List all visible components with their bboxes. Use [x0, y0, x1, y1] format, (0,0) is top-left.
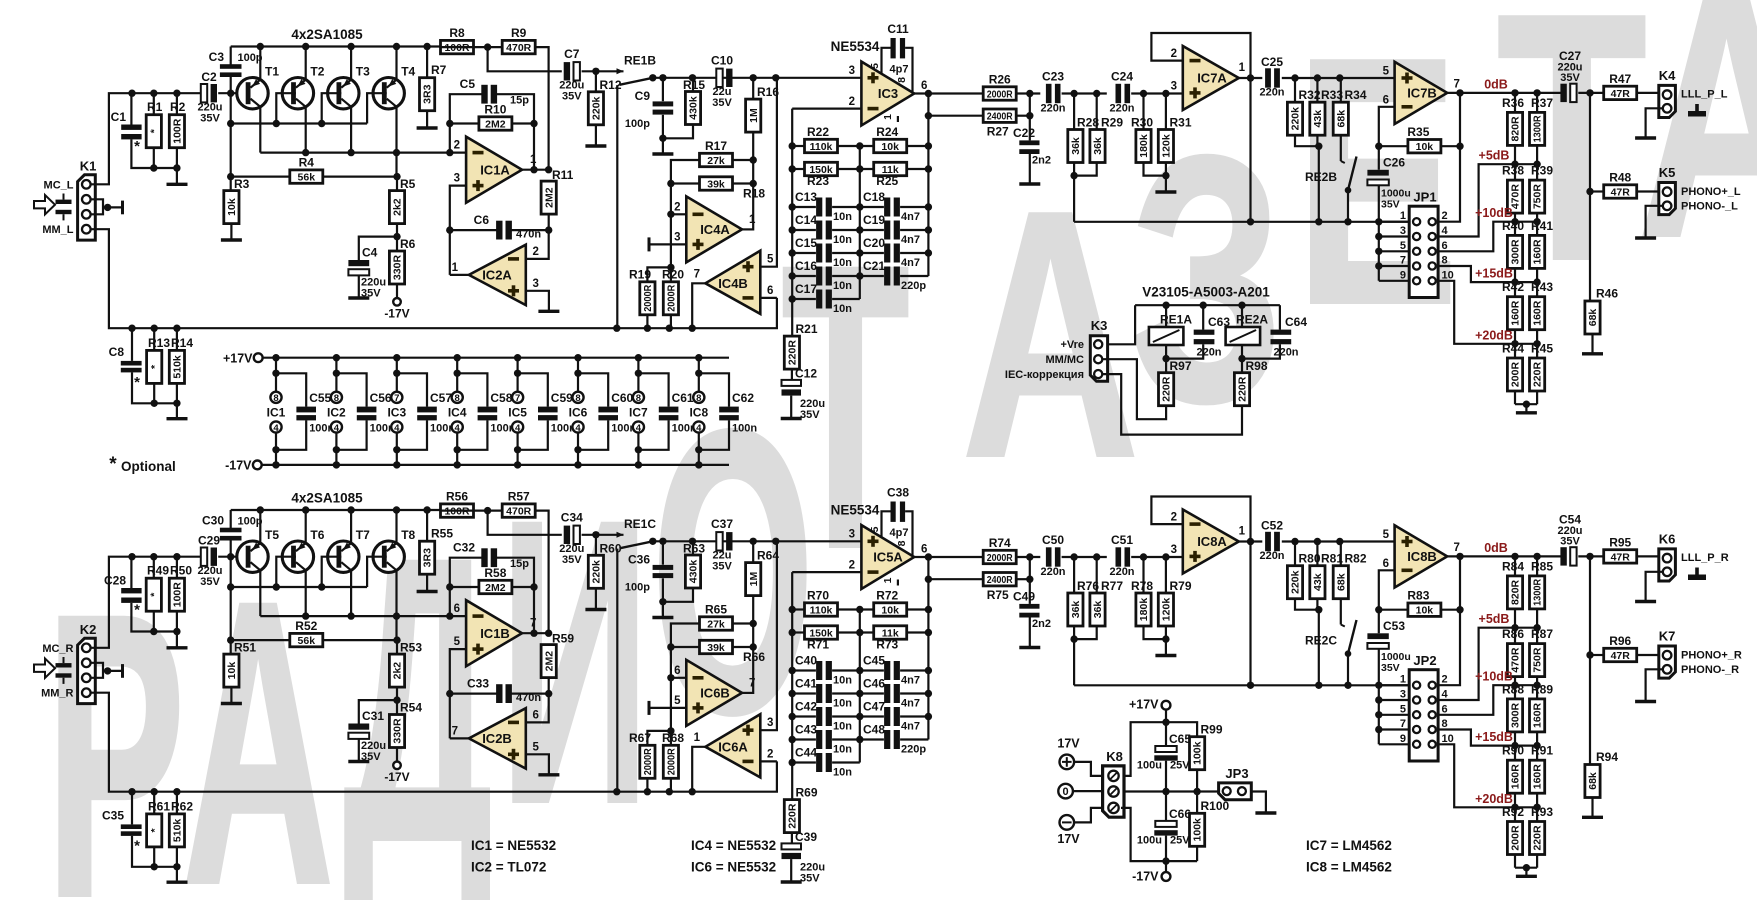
- resistor R6: [389, 237, 415, 284]
- svg-text:100k: 100k: [1192, 741, 1204, 765]
- svg-text:10k: 10k: [881, 604, 899, 616]
- svg-text:C45: C45: [863, 654, 885, 668]
- wire: [882, 511, 891, 537]
- capacitor C57: [397, 373, 456, 450]
- svg-text:C50: C50: [1042, 533, 1064, 547]
- svg-text:220p: 220p: [901, 280, 926, 292]
- svg-text:+15dB: +15dB: [1475, 267, 1513, 281]
- resistor R28: [1068, 116, 1100, 163]
- resistor R15: [683, 78, 705, 125]
- svg-text:25V: 25V: [1170, 835, 1190, 847]
- wire: [230, 510, 232, 528]
- resistor R65: [700, 603, 733, 631]
- svg-text:C23: C23: [1042, 70, 1064, 84]
- op-amp IC1A: [466, 137, 522, 203]
- svg-text:R12: R12: [600, 78, 622, 92]
- wire: [359, 237, 397, 260]
- wire: [395, 47, 397, 80]
- svg-text:*: *: [134, 138, 140, 155]
- capacitor C21: [884, 267, 900, 286]
- svg-text:8: 8: [1442, 255, 1448, 267]
- svg-text:R69: R69: [796, 786, 818, 800]
- wire: [792, 669, 816, 671]
- svg-text:35V: 35V: [1381, 199, 1400, 211]
- resistor R66: [700, 640, 766, 664]
- wire: [1438, 93, 1460, 222]
- wire: [396, 687, 398, 714]
- svg-text:430k: 430k: [688, 96, 700, 120]
- ground: [1635, 136, 1656, 139]
- svg-text:V23105-A5003-A201: V23105-A5003-A201: [1142, 285, 1270, 300]
- svg-text:3: 3: [1171, 81, 1177, 93]
- svg-text:7: 7: [1400, 255, 1406, 267]
- resistor R8: [441, 26, 474, 54]
- wire: [1591, 334, 1593, 354]
- svg-text:C5: C5: [460, 77, 476, 91]
- svg-text:1: 1: [530, 154, 537, 166]
- capacitor C64: [1271, 315, 1308, 359]
- resistor R27: [983, 109, 1016, 139]
- svg-text:35V: 35V: [562, 91, 582, 103]
- capacitor C12: [782, 367, 826, 422]
- wire: [1379, 609, 1408, 611]
- capacitor C42: [816, 707, 832, 726]
- svg-text:56k: 56k: [298, 635, 316, 647]
- svg-text:IC5A: IC5A: [873, 550, 903, 565]
- wire: [131, 328, 133, 361]
- resistor R85: [1530, 559, 1554, 609]
- svg-text:K5: K5: [1659, 165, 1676, 180]
- op-amp IC7B: [1395, 62, 1448, 124]
- wire: [860, 715, 884, 717]
- relay contact RE2B: [1305, 157, 1357, 222]
- ground: [348, 760, 369, 763]
- wire: [914, 92, 984, 94]
- svg-text:8: 8: [696, 393, 701, 404]
- capacitor C51: [1116, 547, 1131, 566]
- wire: [153, 557, 155, 579]
- resistor R48: [1604, 171, 1637, 199]
- transistor T1: [237, 65, 280, 109]
- svg-text:IC3: IC3: [387, 406, 406, 420]
- ground: [781, 417, 802, 420]
- svg-text:R44: R44: [1502, 342, 1524, 356]
- svg-text:2M2: 2M2: [543, 187, 555, 208]
- svg-text:100p: 100p: [237, 52, 262, 64]
- op-amp IC2A labels: [452, 246, 539, 296]
- wire: [526, 230, 549, 259]
- svg-text:C14: C14: [795, 213, 817, 227]
- wire: [488, 47, 562, 71]
- svg-text:10: 10: [1442, 269, 1454, 281]
- svg-text:C58: C58: [490, 391, 512, 405]
- svg-text:K6: K6: [1659, 532, 1676, 547]
- chassis symbol: [1695, 104, 1699, 111]
- wire: [1102, 374, 1242, 435]
- svg-text:2: 2: [1171, 512, 1177, 524]
- svg-text:220R: 220R: [1532, 362, 1544, 388]
- svg-text:IC6 = NE5532: IC6 = NE5532: [691, 860, 776, 875]
- resistor R91: [1530, 744, 1554, 794]
- svg-text:C9: C9: [635, 89, 651, 103]
- resistor R94: [1585, 750, 1618, 798]
- wire: [792, 107, 861, 109]
- svg-text:2000R: 2000R: [642, 284, 654, 311]
- svg-text:100u: 100u: [1137, 835, 1162, 847]
- svg-text:+5dB: +5dB: [1479, 149, 1510, 163]
- resistor R89: [1530, 682, 1554, 732]
- svg-text:R3: R3: [234, 177, 250, 191]
- svg-text:2n2: 2n2: [1032, 618, 1051, 630]
- capacitor C47: [884, 707, 900, 726]
- wire: [1514, 807, 1516, 821]
- svg-text:MM_R: MM_R: [41, 688, 73, 700]
- resistor R30: [1131, 116, 1153, 163]
- wire: [91, 93, 132, 184]
- capacitor C2: [201, 84, 217, 102]
- svg-text:35V: 35V: [200, 576, 220, 588]
- wire: [1121, 808, 1197, 861]
- svg-text:1: 1: [1400, 210, 1406, 222]
- svg-text:R7: R7: [431, 63, 447, 77]
- svg-text:35V: 35V: [200, 113, 220, 125]
- capacitor C65: [1137, 732, 1191, 772]
- ground: [417, 590, 438, 593]
- resistor R55: [420, 527, 454, 575]
- wire: [790, 396, 792, 419]
- svg-text:9: 9: [1400, 269, 1406, 281]
- svg-text:15p: 15p: [510, 95, 529, 107]
- svg-text:17V: 17V: [1057, 832, 1080, 846]
- svg-text:4: 4: [1442, 689, 1449, 701]
- resistor R43: [1530, 280, 1554, 330]
- resistor R47: [1604, 72, 1637, 100]
- op-amp IC8A: [1183, 510, 1239, 574]
- svg-text:R82: R82: [1345, 552, 1367, 566]
- wire: [536, 511, 549, 634]
- wire: [1378, 649, 1380, 745]
- svg-text:1: 1: [1239, 62, 1246, 74]
- wire: [395, 107, 397, 153]
- wire: [752, 541, 754, 562]
- svg-text:6: 6: [1442, 240, 1448, 252]
- wire: [860, 229, 884, 231]
- ground: [221, 702, 242, 705]
- svg-text:7: 7: [749, 678, 755, 690]
- svg-text:10n: 10n: [833, 257, 852, 269]
- svg-text:10n: 10n: [833, 675, 852, 687]
- svg-text:C32: C32: [453, 541, 475, 555]
- svg-text:IC4: IC4: [448, 406, 467, 420]
- svg-text:RE1B: RE1B: [624, 54, 656, 68]
- wire: [426, 47, 428, 78]
- svg-text:110k: 110k: [810, 141, 833, 153]
- ground: [167, 183, 188, 186]
- resistor R52: [290, 619, 323, 647]
- svg-text:7: 7: [694, 269, 700, 281]
- svg-text:C1: C1: [111, 110, 127, 124]
- resistor R39: [1530, 164, 1554, 214]
- wire: [358, 275, 360, 298]
- wire: [1074, 221, 1409, 223]
- svg-text:100k: 100k: [1192, 818, 1204, 842]
- capacitor C49: [1013, 590, 1051, 631]
- wire: [153, 328, 155, 350]
- resistor R73: [874, 626, 907, 652]
- svg-text:220R: 220R: [787, 803, 799, 829]
- wire: [396, 748, 398, 761]
- capacitor C9: [653, 101, 674, 114]
- svg-text:*: *: [134, 374, 140, 391]
- svg-text:4: 4: [1442, 225, 1449, 237]
- svg-text:1: 1: [452, 262, 459, 274]
- svg-text:1M: 1M: [748, 108, 760, 123]
- svg-text:5: 5: [674, 695, 681, 707]
- wire: [450, 274, 469, 276]
- wire: [1074, 762, 1103, 776]
- svg-text:C26: C26: [1383, 156, 1405, 170]
- svg-text:510k: 510k: [172, 819, 184, 843]
- wire: [441, 510, 502, 512]
- svg-text:4p7: 4p7: [890, 527, 909, 539]
- capacitor C13: [816, 198, 832, 217]
- wire: [1514, 685, 1516, 699]
- svg-text:K8: K8: [1106, 749, 1123, 764]
- svg-text:8: 8: [636, 393, 641, 404]
- capacitor C61: [638, 373, 697, 450]
- svg-text:2400R: 2400R: [987, 574, 1013, 586]
- capacitor C16: [816, 267, 832, 286]
- wire: [860, 692, 884, 694]
- power pins IC6: [569, 354, 588, 469]
- svg-text:220n: 220n: [1109, 103, 1134, 115]
- resistor R40: [1502, 219, 1524, 269]
- capacitor C55: [276, 373, 335, 450]
- wire: [1165, 305, 1167, 327]
- wire: [395, 510, 397, 543]
- wire: [153, 792, 155, 814]
- op-amp IC6A: [705, 714, 760, 777]
- svg-text:10k: 10k: [226, 662, 238, 680]
- svg-text:10n: 10n: [833, 211, 852, 223]
- svg-text:C18: C18: [863, 190, 885, 204]
- wire: [522, 169, 549, 171]
- op-amp IC7B labels: [1383, 66, 1460, 109]
- wire: [450, 649, 466, 738]
- svg-text:C7: C7: [564, 47, 580, 61]
- svg-text:IC3: IC3: [878, 86, 898, 101]
- svg-text:4x2SA1085: 4x2SA1085: [291, 27, 363, 42]
- capacitor C59: [518, 373, 577, 450]
- connector K3: [1090, 318, 1107, 381]
- capacitor C23: [1046, 84, 1061, 103]
- wire: [792, 715, 816, 717]
- svg-text:750R: 750R: [1532, 184, 1544, 210]
- wire: [260, 615, 466, 617]
- wire: [91, 693, 132, 792]
- wire: [791, 572, 793, 800]
- svg-text:2: 2: [849, 560, 855, 572]
- svg-text:C2: C2: [201, 70, 217, 84]
- wire: [760, 297, 777, 299]
- resistor R57: [502, 490, 535, 518]
- resistor R26: [983, 73, 1016, 101]
- svg-text:3R3: 3R3: [422, 548, 434, 567]
- resistor R87: [1530, 627, 1554, 677]
- terminal 17V -: [1060, 815, 1075, 830]
- svg-text:220R: 220R: [1237, 376, 1249, 402]
- wire: [760, 78, 777, 267]
- svg-text:R58: R58: [484, 566, 506, 580]
- op-amp IC3: [861, 62, 914, 126]
- svg-text:RE2B: RE2B: [1305, 170, 1337, 184]
- svg-text:З: З: [1130, 85, 1283, 475]
- terminal -17V: [393, 762, 401, 770]
- wire: [1282, 77, 1395, 79]
- svg-text:C4: C4: [362, 246, 378, 260]
- wire: [132, 556, 201, 558]
- resistor R38: [1502, 164, 1524, 214]
- wire: [1514, 556, 1516, 576]
- svg-text:5: 5: [869, 526, 881, 532]
- capacitor C62: [699, 373, 758, 450]
- svg-text:LLL_P_R: LLL_P_R: [1681, 552, 1729, 564]
- transistor T6: [282, 528, 325, 572]
- svg-text:IC6: IC6: [569, 406, 588, 420]
- svg-text:R21: R21: [796, 322, 818, 336]
- wire: [231, 176, 290, 178]
- wire: [1646, 206, 1663, 237]
- svg-text:5: 5: [454, 636, 461, 648]
- wire: [1074, 808, 1103, 823]
- svg-text:1: 1: [749, 214, 756, 226]
- wire: [792, 145, 804, 147]
- svg-text:R83: R83: [1407, 589, 1429, 603]
- svg-text:+Vre: +Vre: [1060, 339, 1084, 351]
- wire: [395, 616, 397, 640]
- svg-text:R94: R94: [1596, 750, 1618, 764]
- resistor R75: [983, 573, 1016, 603]
- capacitor C3: [220, 64, 242, 77]
- svg-text:C41: C41: [795, 677, 817, 691]
- resistor R50: [169, 564, 192, 612]
- resistor R99: [1190, 723, 1223, 770]
- wire: [1646, 108, 1663, 137]
- wire: [649, 243, 686, 245]
- svg-text:K4: K4: [1659, 68, 1676, 83]
- capacitor C48: [884, 730, 900, 749]
- svg-text:2M2: 2M2: [485, 582, 506, 594]
- ground: [781, 880, 802, 883]
- svg-text:6: 6: [767, 285, 773, 297]
- wire: [1589, 556, 1591, 764]
- svg-text:C65: C65: [1169, 732, 1191, 746]
- svg-text:220n: 220n: [1196, 347, 1221, 359]
- svg-text:10k: 10k: [226, 198, 238, 216]
- ground: [1019, 646, 1040, 649]
- svg-text:2: 2: [674, 202, 680, 214]
- transistor T4: [373, 65, 416, 109]
- svg-text:36k: 36k: [1070, 137, 1082, 155]
- op-amp IC7A: [1183, 46, 1239, 110]
- relay coil RE1A: [1149, 327, 1184, 345]
- wire: [1379, 145, 1408, 147]
- svg-text:35V: 35V: [1381, 662, 1400, 674]
- resistor R13: [147, 336, 171, 383]
- svg-text:6: 6: [1383, 95, 1389, 107]
- svg-text:R95: R95: [1609, 535, 1631, 549]
- resistor R12: [588, 78, 622, 125]
- svg-text:5: 5: [869, 63, 881, 69]
- wire: [1438, 730, 1515, 746]
- op-amp IC7A labels: [1171, 48, 1246, 98]
- svg-text:110k: 110k: [810, 604, 833, 616]
- svg-text:C66: C66: [1169, 807, 1191, 821]
- capacitor C58: [457, 373, 516, 450]
- svg-text:R26: R26: [989, 73, 1011, 87]
- svg-text:100u: 100u: [1137, 760, 1162, 772]
- resistor R25: [874, 162, 907, 188]
- wire: [350, 510, 352, 543]
- svg-text:4: 4: [273, 423, 279, 434]
- svg-text:470R: 470R: [506, 506, 532, 518]
- wire: [396, 284, 398, 297]
- wire: [1590, 190, 1604, 192]
- wire: [692, 283, 705, 328]
- wire: [131, 792, 133, 825]
- resistor R51: [224, 641, 257, 688]
- wire: [1294, 542, 1296, 566]
- svg-text:C17: C17: [795, 282, 817, 296]
- op-amp IC3 labels: [849, 63, 928, 120]
- resistor R74: [983, 536, 1016, 564]
- svg-text:+15dB: +15dB: [1475, 730, 1513, 744]
- capacitor C7: [564, 62, 580, 80]
- svg-text:PHONO-_L: PHONO-_L: [1681, 201, 1738, 213]
- wire: [396, 224, 398, 251]
- svg-text:47R: 47R: [1611, 650, 1631, 662]
- wire: [671, 160, 700, 267]
- svg-text:R17: R17: [705, 139, 727, 153]
- svg-text:R6: R6: [400, 237, 416, 251]
- svg-text:PHONO+_R: PHONO+_R: [1681, 650, 1742, 662]
- svg-text:C49: C49: [1013, 590, 1035, 604]
- wire: [1379, 221, 1409, 223]
- resistor R53: [389, 641, 422, 688]
- op-amp IC6B: [686, 660, 742, 726]
- svg-text:R99: R99: [1201, 723, 1223, 737]
- svg-text:R11: R11: [552, 168, 574, 182]
- op-amp IC6B labels: [674, 665, 755, 713]
- svg-text:R22: R22: [807, 125, 829, 139]
- svg-text:R41: R41: [1531, 219, 1553, 233]
- wire: [1131, 92, 1183, 94]
- capacitor C30: [220, 528, 242, 541]
- svg-text:C29: C29: [198, 534, 220, 548]
- svg-text:C31: C31: [362, 709, 384, 723]
- svg-text:100R: 100R: [172, 582, 184, 608]
- capacitor C17: [816, 290, 832, 309]
- svg-text:2n2: 2n2: [1032, 155, 1051, 167]
- ground: [1155, 190, 1176, 193]
- svg-text:T4: T4: [401, 65, 415, 79]
- wire: [1282, 540, 1395, 542]
- wire: [595, 535, 597, 556]
- wire: [1135, 304, 1280, 306]
- svg-text:6: 6: [1383, 558, 1389, 570]
- svg-text:220R: 220R: [1161, 376, 1173, 402]
- capacitor C45: [884, 661, 900, 680]
